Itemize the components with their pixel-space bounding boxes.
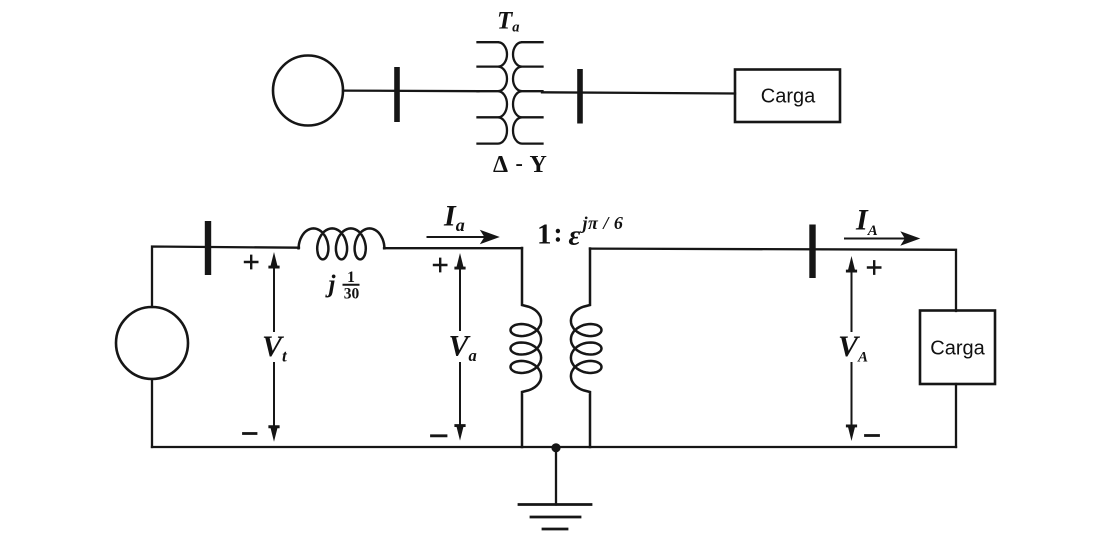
generator G (one-line diagram) — [273, 56, 343, 126]
svg-text:Y: Y — [530, 152, 547, 178]
svg-text::: : — [554, 218, 563, 248]
arrow Ia shaft — [428, 236, 487, 238]
svg-text:Carga: Carga — [930, 338, 985, 360]
bus bar 4 — [809, 225, 815, 279]
arrowhead VA top — [846, 256, 857, 273]
wire transformer secondary to load (top right) — [590, 249, 956, 311]
voltage arrow VA shaft — [851, 266, 853, 431]
wire load to bottom rail — [955, 384, 957, 447]
label Vt — [262, 332, 288, 362]
arrowhead Ia — [480, 230, 500, 244]
bus bar 2 — [577, 69, 583, 124]
svg-text:jπ / 6: jπ / 6 — [580, 213, 624, 233]
wire transformer to load box — [542, 92, 735, 93]
arrowhead Va top — [454, 253, 465, 270]
load box Carga (equivalent circuit) — [920, 311, 995, 385]
wire top-left: source to inductor — [152, 247, 299, 308]
svg-text:ε: ε — [569, 220, 581, 252]
bus bar 3 — [205, 221, 211, 275]
arrowhead Vt bottom — [268, 425, 279, 442]
arrowhead Va bottom — [454, 424, 465, 441]
node dot (ground junction) — [551, 443, 560, 452]
minus sign at Vt — [244, 432, 257, 435]
arrow IA shaft — [845, 238, 906, 240]
wire source to bottom rail — [151, 379, 153, 447]
svg-text:1: 1 — [537, 219, 552, 251]
arrowhead IA — [900, 231, 920, 245]
wire inductor to transformer primary — [384, 247, 522, 249]
label VA — [838, 332, 865, 362]
ground bar 1 — [519, 503, 591, 506]
svg-text:30: 30 — [344, 286, 360, 303]
source circle (equivalent circuit) — [116, 307, 188, 379]
label Va — [449, 331, 474, 362]
bottom rail wire — [152, 446, 956, 448]
svg-text:Δ: Δ — [493, 152, 508, 178]
transformer T_a secondary winding (wye side) — [513, 42, 543, 143]
arrowhead Vt top — [268, 252, 279, 269]
voltage arrow Va shaft — [459, 263, 461, 431]
svg-text:1: 1 — [347, 269, 355, 286]
voltage arrow Vt shaft — [273, 262, 275, 432]
ground bar 3 — [543, 528, 567, 531]
minus sign at VA — [866, 434, 879, 437]
plus sign at VA — [868, 261, 880, 273]
load box Carga (one-line) — [735, 70, 840, 123]
inductor j(1/30) — [299, 228, 385, 259]
arrowhead VA bottom — [846, 425, 857, 442]
ideal transformer primary coil with leads — [511, 248, 542, 447]
plus sign at Va — [434, 259, 446, 271]
transformer T_a primary winding (delta side) — [478, 42, 508, 143]
ground bar 2 — [531, 516, 580, 519]
svg-text:-: - — [516, 151, 523, 176]
ground stem — [555, 449, 557, 505]
svg-text:Carga: Carga — [761, 86, 816, 108]
minus sign at Va — [432, 434, 447, 437]
bus bar 1 — [394, 67, 400, 122]
plus sign at Vt — [245, 256, 257, 268]
ideal transformer secondary coil with leads — [571, 249, 602, 448]
wire generator to transformer primary lead — [343, 89, 479, 92]
